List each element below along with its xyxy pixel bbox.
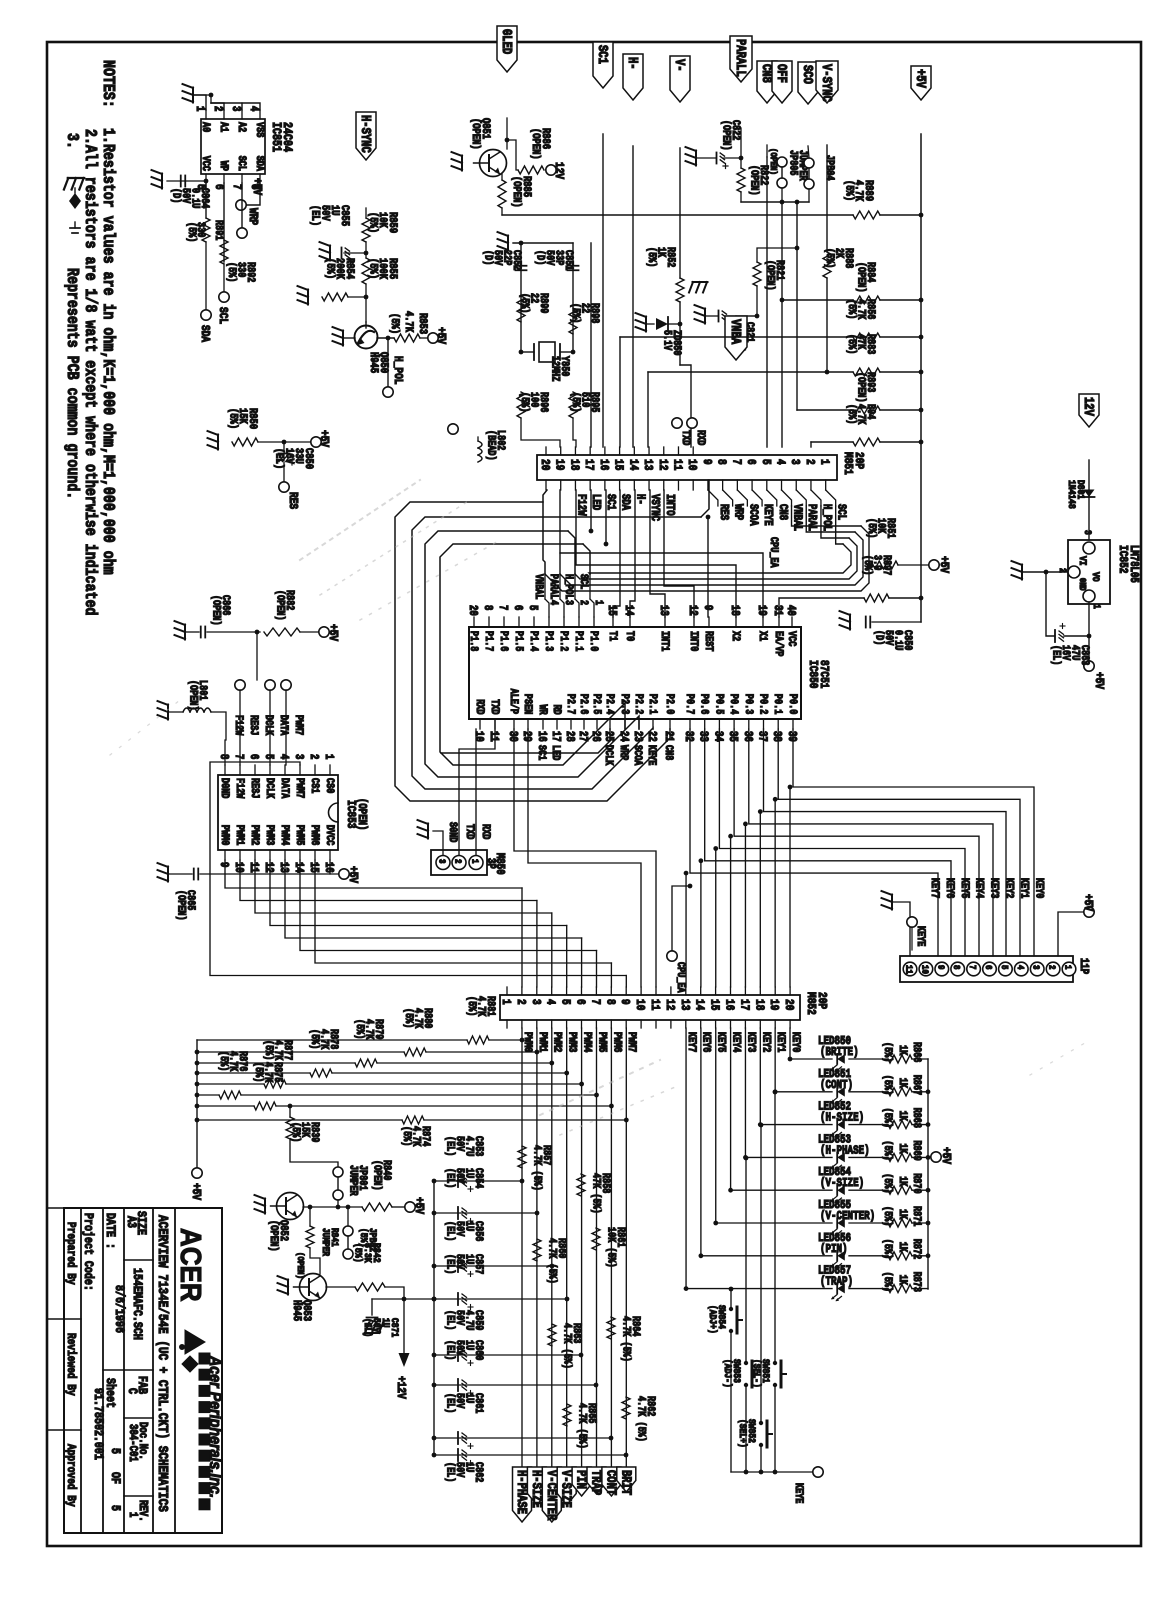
svg-text:+5V: +5V (326, 624, 339, 641)
svg-text:(OPEN): (OPEN) (371, 1160, 383, 1191)
svg-text:P1.2: P1.2 (558, 631, 570, 652)
svg-text:LM78L05: LM78L05 (1127, 545, 1140, 583)
svg-text:(EL): (EL) (362, 1318, 374, 1337)
svg-text:1K: 1K (897, 1045, 909, 1055)
svg-text:(OPEN): (OPEN) (355, 798, 368, 830)
svg-text:1K: 1K (897, 1209, 909, 1219)
svg-text:H_POL: H_POL (391, 356, 404, 385)
svg-text:(H-PHASE): (H-PHASE) (820, 1144, 870, 1157)
svg-text:19: 19 (755, 605, 768, 616)
svg-text:+5V: +5V (250, 178, 263, 195)
svg-text:(EL): (EL) (444, 1168, 456, 1188)
svg-text:R869: R869 (911, 1140, 923, 1161)
svg-text:(BEAD): (BEAD) (485, 430, 497, 461)
svg-text:PWM1: PWM1 (234, 825, 246, 846)
svg-text:(5%): (5%) (882, 1173, 894, 1193)
svg-text:VCC: VCC (200, 156, 212, 171)
svg-text:INT1: INT1 (659, 631, 671, 652)
svg-text:1: 1 (817, 459, 830, 465)
svg-text:CS1: CS1 (309, 778, 321, 793)
svg-text:X1: X1 (757, 631, 769, 641)
svg-text:R870: R870 (911, 1173, 923, 1194)
svg-text:BRIT: BRIT (618, 1470, 634, 1495)
svg-text:(5%): (5%) (388, 313, 401, 334)
svg-text:12: 12 (662, 999, 675, 1010)
svg-text:SC1: SC1 (595, 45, 611, 64)
svg-text:(SEL+): (SEL+) (737, 1419, 749, 1448)
svg-text:13: 13 (641, 459, 654, 470)
svg-text:H-: H- (625, 57, 641, 70)
svg-text:4.7K (5%): 4.7K (5%) (635, 1396, 647, 1442)
svg-text:18: 18 (728, 605, 741, 616)
svg-text:(BRITE): (BRITE) (820, 1046, 859, 1059)
svg-text:PWM3: PWM3 (264, 825, 276, 846)
svg-text:1: 1 (469, 859, 480, 864)
svg-text:SCL: SCL (236, 156, 248, 171)
svg-text:P1.5: P1.5 (513, 631, 525, 652)
svg-text:SDA: SDA (254, 156, 266, 171)
svg-text:3: 3 (1030, 965, 1041, 970)
svg-text:11P: 11P (1077, 958, 1090, 974)
svg-text:14: 14 (292, 862, 305, 873)
svg-text:KEY1: KEY1 (775, 1032, 787, 1053)
svg-text:RXD: RXD (695, 430, 707, 445)
svg-text:PWM0: PWM0 (219, 825, 231, 846)
svg-text:P1.1: P1.1 (573, 631, 585, 652)
svg-text:3.: 3. (62, 133, 82, 149)
svg-text:P1.0: P1.0 (588, 631, 600, 652)
svg-text:9: 9 (701, 605, 714, 610)
svg-text:CS0: CS0 (324, 778, 336, 793)
svg-text:4.7K (5%): 4.7K (5%) (546, 1238, 558, 1284)
svg-text:KEY6: KEY6 (700, 1032, 712, 1053)
svg-text:16: 16 (596, 459, 609, 470)
svg-text:(OPEN): (OPEN) (748, 165, 760, 196)
svg-text:P1.7: P1.7 (483, 631, 495, 652)
svg-text:(5%): (5%) (882, 1206, 894, 1226)
svg-text:3: 3 (436, 859, 447, 864)
svg-text:(D): (D) (170, 188, 182, 203)
svg-text:P2.1: P2.1 (647, 694, 659, 715)
svg-text:6: 6 (983, 965, 994, 970)
svg-text:(OPEN): (OPEN) (295, 1252, 306, 1279)
svg-text:(OPEN): (OPEN) (855, 262, 867, 293)
svg-text:31: 31 (771, 605, 784, 616)
svg-text:KEY6: KEY6 (944, 878, 956, 899)
svg-text:R868: R868 (911, 1108, 923, 1129)
svg-text:1: 1 (1062, 965, 1073, 970)
svg-text:40: 40 (784, 605, 797, 616)
svg-text:(5%): (5%) (842, 180, 855, 201)
svg-text:TXD: TXD (464, 824, 476, 839)
svg-text:3: 3 (292, 754, 305, 759)
svg-text:(5%): (5%) (866, 518, 878, 538)
svg-text:11: 11 (487, 731, 500, 742)
svg-text:(5%): (5%) (401, 1126, 413, 1146)
svg-text:REST: REST (703, 631, 715, 652)
svg-text:P1.4: P1.4 (528, 631, 540, 652)
svg-text:EA/VP: EA/VP (773, 631, 785, 657)
svg-text:WRP: WRP (246, 208, 259, 225)
svg-text:PWM1: PWM1 (536, 1032, 548, 1053)
svg-text:12MHZ: 12MHZ (549, 356, 561, 382)
svg-text:CPU_EA: CPU_EA (675, 962, 687, 993)
svg-text:RESJ: RESJ (249, 778, 261, 798)
svg-text:KEYE: KEYE (761, 504, 774, 526)
svg-text:34: 34 (711, 731, 724, 742)
svg-text:WR: WR (537, 704, 549, 714)
svg-text:304-C01: 304-C01 (126, 1424, 139, 1462)
svg-text:1K: 1K (897, 1078, 909, 1088)
svg-text:20: 20 (782, 999, 795, 1010)
svg-text:R891: R891 (213, 220, 225, 241)
svg-text:RXD: RXD (480, 824, 492, 839)
svg-text:F12W: F12W (234, 778, 246, 799)
svg-text:6: 6 (744, 459, 757, 465)
svg-text:PWM4: PWM4 (581, 1032, 593, 1053)
svg-text:19: 19 (552, 459, 565, 470)
svg-text:(OPEN): (OPEN) (510, 176, 523, 208)
svg-text:ALE/P: ALE/P (508, 689, 520, 715)
svg-text:3: 3 (1082, 530, 1094, 535)
svg-text:5: 5 (758, 459, 771, 465)
svg-text:7: 7 (496, 605, 509, 610)
svg-text:(5%): (5%) (186, 222, 198, 242)
svg-text:9: 9 (935, 965, 946, 970)
svg-text:(5%): (5%) (570, 303, 582, 323)
svg-text:(OPEN): (OPEN) (175, 890, 187, 921)
svg-text:JUMPER: JUMPER (320, 1228, 331, 1257)
svg-text:Approved By: Approved By (64, 1444, 77, 1507)
svg-text:16: 16 (535, 731, 548, 742)
svg-text:PARALL: PARALL (733, 39, 749, 77)
svg-text:(5%): (5%) (403, 1008, 415, 1028)
svg-text:Project Code:: Project Code: (81, 1213, 95, 1291)
svg-text:P1.6: P1.6 (498, 631, 510, 652)
svg-text:8: 8 (714, 459, 727, 465)
svg-text:3: 3 (528, 999, 541, 1005)
svg-text:P0.2: P0.2 (757, 694, 769, 715)
svg-text:1: 1 (593, 600, 605, 605)
svg-text:(5%): (5%) (366, 258, 379, 279)
svg-text:+5V: +5V (317, 430, 330, 447)
svg-text:(5%): (5%) (862, 555, 874, 575)
svg-text:2: 2 (452, 859, 463, 864)
svg-text:15: 15 (611, 459, 624, 470)
svg-text:VNBA: VNBA (728, 319, 744, 345)
svg-text:32: 32 (682, 731, 695, 742)
svg-text:(H-SIZE): (H-SIZE) (820, 1112, 864, 1125)
svg-text:(5%): (5%) (882, 1239, 894, 1259)
svg-text:(OPEN): (OPEN) (720, 120, 732, 151)
svg-text:2: 2 (1046, 965, 1057, 970)
svg-text:(EL): (EL) (444, 1393, 456, 1413)
svg-text:5: 5 (999, 965, 1010, 970)
svg-text:2: 2 (578, 600, 590, 605)
svg-text:12: 12 (686, 605, 699, 616)
svg-text:5.1V: 5.1V (661, 330, 673, 351)
svg-text:(5%): (5%) (846, 334, 858, 354)
svg-text:1K: 1K (897, 1242, 909, 1252)
svg-text:KEY5: KEY5 (715, 1032, 727, 1053)
svg-text:KEY1: KEY1 (1018, 878, 1030, 899)
svg-text:+5V: +5V (939, 1147, 952, 1164)
svg-text:91.78502.001: 91.78502.001 (91, 1388, 105, 1460)
svg-text:35: 35 (726, 731, 739, 742)
svg-text:KEY7: KEY7 (685, 1032, 697, 1053)
svg-text:1: 1 (193, 106, 206, 111)
svg-text:F12W: F12W (233, 715, 245, 736)
svg-text:KEY3: KEY3 (988, 878, 1000, 899)
svg-text:(OPEN): (OPEN) (855, 372, 867, 403)
svg-text:9: 9 (217, 862, 230, 867)
svg-text:8/6/1996: 8/6/1996 (112, 1285, 126, 1333)
svg-text:5: 5 (558, 999, 571, 1005)
svg-text:PWM7: PWM7 (626, 1032, 638, 1053)
svg-text:9: 9 (618, 999, 631, 1005)
svg-text:+5V: +5V (346, 866, 359, 883)
svg-text:5: 5 (108, 1448, 122, 1454)
svg-text:4: 4 (773, 459, 786, 465)
svg-text:1.Resistor values are in ohm,K: 1.Resistor values are in ohm,K=1,000 ohm… (98, 128, 118, 575)
svg-text:15: 15 (707, 999, 720, 1010)
svg-text:RES: RES (286, 492, 299, 509)
svg-text:(OPEN): (OPEN) (529, 128, 542, 160)
svg-text:4.7K (5%): 4.7K (5%) (620, 1316, 632, 1362)
svg-text:(5%): (5%) (882, 1075, 894, 1095)
svg-text:DVCC: DVCC (324, 825, 336, 846)
svg-text:SCOA: SCOA (746, 504, 759, 526)
svg-text:14: 14 (622, 605, 635, 616)
svg-text:A1: A1 (218, 122, 230, 132)
svg-text:(5%): (5%) (253, 1062, 265, 1082)
svg-text:PWM5: PWM5 (294, 825, 306, 846)
svg-text:(5%): (5%) (323, 258, 336, 279)
svg-text:PWM7: PWM7 (293, 715, 305, 736)
svg-text:Prepared By: Prepared By (64, 1222, 77, 1285)
svg-text:VI: VI (1077, 556, 1089, 566)
svg-text:SDA: SDA (198, 325, 211, 342)
svg-text:PWM6: PWM6 (611, 1032, 623, 1053)
svg-text:8: 8 (481, 605, 494, 610)
svg-text:A2: A2 (236, 122, 248, 132)
svg-text:(EL): (EL) (444, 1254, 456, 1274)
svg-text:6: 6 (247, 754, 260, 759)
svg-text:TXD: TXD (680, 430, 692, 445)
svg-text:PWM7: PWM7 (294, 778, 306, 799)
svg-text:R867: R867 (911, 1075, 923, 1096)
svg-text:RES: RES (716, 504, 729, 520)
svg-text:DCLK: DCLK (263, 715, 275, 736)
svg-text:2: 2 (803, 459, 816, 465)
svg-text:22: 22 (645, 731, 658, 742)
svg-text:(5%): (5%) (366, 212, 379, 233)
svg-text:P2.2: P2.2 (633, 694, 645, 715)
svg-text:+5V: +5V (1092, 672, 1105, 689)
svg-text:CPU_EA: CPU_EA (768, 537, 780, 568)
svg-text:(V-SIZE): (V-SIZE) (820, 1177, 864, 1190)
svg-text:KEY4: KEY4 (973, 878, 985, 899)
svg-text:10: 10 (232, 862, 245, 873)
svg-text:(OPEN): (OPEN) (210, 595, 222, 626)
svg-text:20P: 20P (815, 992, 828, 1009)
svg-text:29: 29 (520, 731, 533, 742)
svg-text:(ADJ-): (ADJ-) (722, 1359, 734, 1388)
svg-text:5: 5 (108, 1505, 122, 1511)
svg-text:V-SYNC: V-SYNC (819, 64, 835, 102)
svg-text:(5%): (5%) (218, 1051, 230, 1071)
svg-text:7: 7 (588, 999, 601, 1005)
svg-text:1: 1 (322, 754, 335, 759)
svg-text:17: 17 (549, 731, 562, 742)
svg-text:(5%): (5%) (646, 247, 658, 267)
svg-text:H945: H945 (290, 1300, 302, 1321)
svg-text:KEY4: KEY4 (730, 1032, 742, 1053)
svg-text:19: 19 (767, 999, 780, 1010)
svg-text:(5%): (5%) (226, 262, 238, 282)
svg-text:RESJ: RESJ (248, 715, 260, 735)
svg-text:P0.3: P0.3 (742, 694, 754, 715)
svg-text:X2: X2 (730, 631, 742, 641)
svg-text:P2.6: P2.6 (578, 694, 590, 715)
svg-text:SCO: SCO (800, 65, 816, 84)
svg-text:Acer Peripherals,Inc.: Acer Peripherals,Inc. (206, 1355, 224, 1498)
svg-text:12V: 12V (1081, 397, 1097, 417)
svg-text:16: 16 (322, 862, 335, 873)
svg-text:RXD: RXD (474, 699, 486, 714)
svg-text:(EL): (EL) (444, 1221, 456, 1241)
svg-text:7: 7 (230, 184, 243, 190)
svg-text:3: 3 (229, 106, 242, 111)
svg-text:4: 4 (548, 600, 560, 605)
svg-text:(EL): (EL) (444, 1136, 456, 1156)
svg-text:KEY0: KEY0 (1033, 878, 1045, 899)
svg-text:(5%): (5%) (882, 1140, 894, 1160)
svg-text:P0.6: P0.6 (698, 694, 710, 715)
svg-text:4: 4 (247, 106, 260, 111)
svg-text:DATA: DATA (278, 715, 290, 736)
svg-text:KEY2: KEY2 (1003, 878, 1015, 899)
svg-text:+5V: +5V (913, 69, 929, 89)
svg-text:(EL): (EL) (444, 1340, 456, 1360)
svg-text:9: 9 (699, 459, 712, 465)
svg-text:(5%): (5%) (846, 404, 858, 424)
svg-text:R853: R853 (416, 313, 428, 334)
svg-text:PWM2: PWM2 (551, 1032, 563, 1053)
svg-text:WRP: WRP (731, 504, 744, 520)
svg-text:1K: 1K (897, 1176, 909, 1186)
svg-text:(OPEN): (OPEN) (764, 260, 776, 291)
svg-text:P0.7: P0.7 (684, 694, 696, 715)
svg-text:10: 10 (919, 965, 930, 974)
svg-text:R871: R871 (911, 1206, 923, 1227)
svg-text:(CONT): (CONT) (820, 1079, 853, 1092)
svg-text:PWM0: PWM0 (522, 1032, 534, 1053)
svg-text:4.7K (5%): 4.7K (5%) (561, 1323, 573, 1369)
svg-text:+12V: +12V (394, 1376, 407, 1399)
svg-text:R872: R872 (911, 1239, 923, 1260)
svg-text:(EL): (EL) (444, 1462, 456, 1482)
svg-text:CN8: CN8 (775, 504, 788, 520)
svg-text:DCLK: DCLK (603, 745, 615, 766)
svg-text:PWM5: PWM5 (596, 1032, 608, 1053)
svg-text:(5%): (5%) (882, 1108, 894, 1128)
svg-text:13: 13 (277, 862, 290, 873)
svg-text:16: 16 (722, 999, 735, 1010)
svg-text:+5V: +5V (937, 556, 950, 573)
svg-text:3: 3 (788, 459, 801, 465)
svg-text:12: 12 (262, 862, 275, 873)
svg-text:KEYE: KEYE (915, 926, 927, 947)
svg-text:87C51: 87C51 (817, 660, 830, 689)
svg-text:1: 1 (499, 999, 512, 1005)
svg-text:154EMAFC.SCH: 154EMAFC.SCH (130, 1268, 144, 1340)
svg-text:DATE :: DATE : (103, 1213, 117, 1249)
svg-text:(5%): (5%) (290, 1122, 302, 1142)
svg-text:P0.1: P0.1 (772, 694, 784, 715)
svg-text:KEY0: KEY0 (790, 1032, 802, 1053)
svg-text:R866: R866 (911, 1042, 923, 1063)
svg-text:P2.4: P2.4 (604, 694, 616, 715)
svg-text:(V-CENTER): (V-CENTER) (820, 1210, 875, 1223)
svg-text:23: 23 (631, 731, 644, 742)
svg-text:DATA: DATA (279, 778, 291, 799)
svg-text:(5%): (5%) (882, 1272, 894, 1292)
svg-text:4: 4 (543, 999, 556, 1005)
svg-text:Represents PCB common ground.: Represents PCB common ground. (62, 268, 82, 499)
svg-text:17: 17 (582, 459, 595, 470)
svg-text:Reviewed By: Reviewed By (64, 1333, 77, 1396)
svg-text:KEY5: KEY5 (958, 878, 970, 899)
svg-text:13: 13 (657, 605, 670, 616)
svg-text:(5%): (5%) (519, 293, 531, 313)
svg-text:GND: GND (1077, 578, 1087, 591)
svg-text:KEY7: KEY7 (929, 878, 941, 899)
svg-text:+5V: +5V (1081, 894, 1094, 911)
svg-text:6: 6 (573, 999, 586, 1005)
svg-text:H-SYNC: H-SYNC (358, 115, 374, 153)
svg-text:+5V: +5V (412, 1197, 425, 1214)
svg-text:PWM6: PWM6 (309, 825, 321, 846)
svg-text:P0.0: P0.0 (787, 694, 799, 715)
svg-text:8: 8 (217, 754, 230, 759)
svg-text:10: 10 (685, 459, 698, 470)
svg-text:30: 30 (506, 731, 519, 742)
svg-text:P0.4: P0.4 (728, 694, 740, 715)
svg-text:+5V: +5V (434, 327, 447, 344)
svg-text:36: 36 (740, 731, 753, 742)
svg-text:4.7K: 4.7K (402, 311, 414, 333)
svg-text:10: 10 (633, 999, 646, 1010)
svg-text:RD: RD (551, 704, 563, 714)
svg-text:10: 10 (472, 731, 485, 742)
svg-text:18: 18 (752, 999, 765, 1010)
svg-text:24C04: 24C04 (280, 122, 294, 152)
svg-text:ACER: ACER (175, 1228, 208, 1302)
svg-text:1: 1 (1091, 604, 1103, 609)
svg-text:(ADJ+): (ADJ+) (707, 1305, 719, 1334)
svg-text:V-: V- (672, 59, 688, 72)
svg-text:KEYE: KEYE (793, 1483, 805, 1504)
svg-text:SCL: SCL (578, 574, 590, 589)
svg-text:20: 20 (538, 459, 551, 470)
svg-text:4: 4 (1014, 965, 1025, 970)
svg-text:(OPEN): (OPEN) (187, 680, 199, 711)
svg-text:2: 2 (307, 754, 320, 759)
svg-text:NOTES:: NOTES: (98, 60, 118, 108)
svg-text:11: 11 (247, 862, 260, 873)
svg-text:10K (5%): 10K (5%) (605, 1227, 617, 1268)
